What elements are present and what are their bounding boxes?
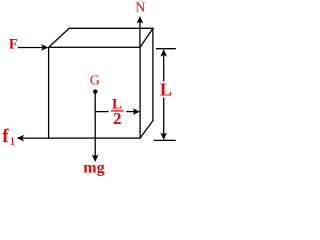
wire F arrow shaft xyxy=(19,47,44,49)
arrowhead of f1 (points left) xyxy=(17,135,25,142)
cube top back edge xyxy=(69,27,153,29)
arrowhead of L dim top (points up) xyxy=(160,49,167,57)
svg-text:G: G xyxy=(90,74,100,89)
svg-text:L: L xyxy=(160,80,172,100)
wire L dimension top tick xyxy=(157,48,176,50)
wire N arrow shaft xyxy=(139,21,141,47)
arrowhead of L dim bottom (points down) xyxy=(160,132,167,140)
cube top-right depth edge xyxy=(140,28,153,47)
arrowhead of N (points up) xyxy=(137,16,144,24)
node G dot xyxy=(93,89,97,93)
wire L dimension lower segment xyxy=(163,98,165,135)
cube bottom-right depth edge xyxy=(140,121,153,139)
arrowhead of L/2 (points right) xyxy=(133,108,141,115)
svg-text:mg: mg xyxy=(83,159,104,176)
wire L dimension bottom tick xyxy=(154,139,175,141)
svg-text:2: 2 xyxy=(113,109,122,128)
svg-text:F: F xyxy=(9,37,18,53)
cube back-right edge xyxy=(152,28,154,120)
wire mg arrow shaft xyxy=(94,92,96,157)
cube top-left depth edge xyxy=(49,28,70,47)
fraction bar of L/2 xyxy=(111,110,124,111)
wire L dimension upper segment xyxy=(163,54,165,81)
wire L/2 arrow shaft right xyxy=(127,111,135,113)
arrowhead of mg (points down) xyxy=(92,154,99,162)
cube front face xyxy=(49,47,141,138)
svg-text:N: N xyxy=(135,1,145,16)
wire L/2 arrow shaft left xyxy=(95,111,108,113)
wire f1 arrow shaft xyxy=(22,137,49,139)
arrowhead of F (points right) xyxy=(41,44,49,51)
